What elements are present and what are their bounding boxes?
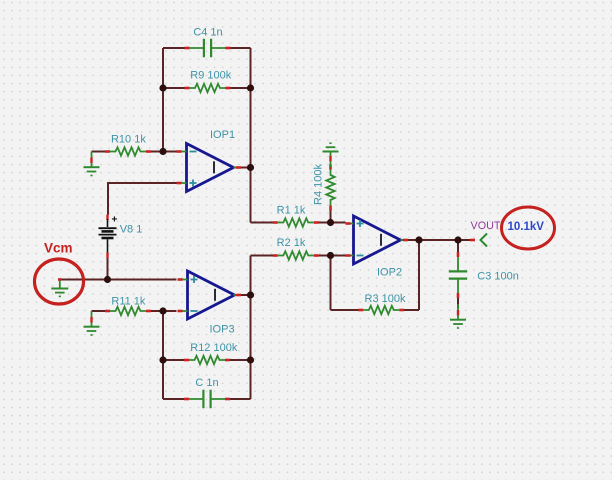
svg-text:VOUT: VOUT [471,220,501,232]
svg-text:R12 100k: R12 100k [190,342,238,354]
svg-text:R11 1k: R11 1k [111,296,146,308]
svg-text:V8 1: V8 1 [120,224,143,236]
svg-text:R3 100k: R3 100k [365,293,406,305]
svg-text:IOP1: IOP1 [210,129,235,141]
svg-text:R2 1k: R2 1k [277,237,306,249]
svg-text:C 1n: C 1n [195,377,218,389]
svg-text:R1 1k: R1 1k [277,205,306,217]
svg-text:R10 1k: R10 1k [111,134,146,146]
svg-text:C3 100n: C3 100n [477,271,519,283]
svg-text:Vcm: Vcm [44,241,73,256]
svg-text:IOP3: IOP3 [210,324,235,336]
svg-text:IOP2: IOP2 [377,267,402,279]
svg-text:R4 100k: R4 100k [313,164,325,205]
svg-text:C4 1n: C4 1n [193,27,222,39]
svg-text:R9 100k: R9 100k [190,70,231,82]
svg-text:10.1kV: 10.1kV [508,221,545,233]
svg-text:+: + [112,215,118,226]
